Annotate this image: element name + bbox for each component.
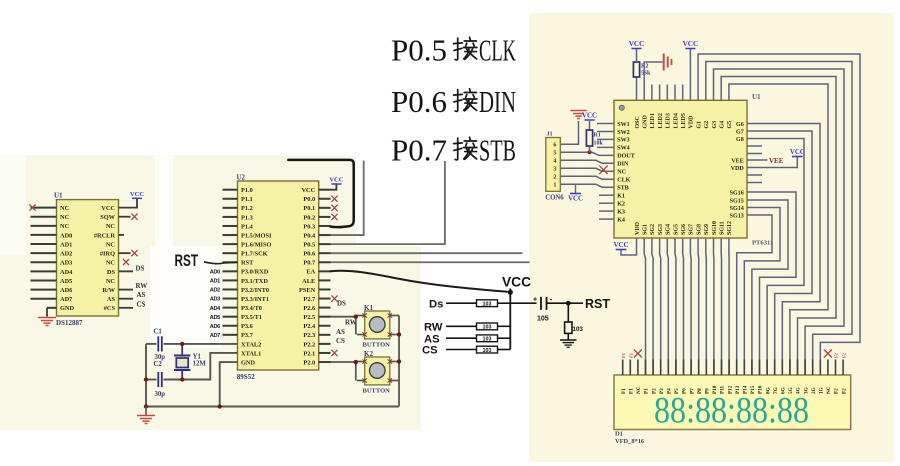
U1 GND symbol [46,308,48,317]
svg-text:P1.0: P1.0 [241,187,253,194]
VFD pin stub P9 [705,360,707,376]
svg-text:C2: C2 [154,361,163,368]
U2 left stub P1.4 [223,225,238,227]
svg-text:SG4: SG4 [666,224,672,235]
U1 left pin wire AD3 [31,261,57,263]
svg-text:2: 2 [553,174,556,181]
svg-text:AD1: AD1 [210,279,220,285]
GND symbol above J1 [570,110,586,112]
U1 #IRQ stub [119,252,131,254]
wire resistor RW to rail [498,325,511,327]
svg-text:F1: F1 [629,352,634,358]
svg-text:P3.3/INT1: P3.3/INT1 [241,296,269,303]
U2 right stub P2.3 [319,334,331,336]
U2 left stub P3.7 [223,334,238,336]
svg-text:GND: GND [643,115,649,129]
buttons right rail to ground [398,316,400,407]
svg-text:NC: NC [636,386,642,394]
svg-text:P0.5: P0.5 [303,242,315,249]
VFD pin stub F2 [835,360,837,376]
svg-text:VCC: VCC [614,242,629,249]
svg-text:NC: NC [826,386,832,394]
wire Ds to resistor [446,302,477,304]
svg-text:56k: 56k [641,71,651,77]
VFD pin stub P2 [652,360,654,376]
no-connect X on P0.0 [331,196,337,202]
PT6311 bottom VDD wire to VCC [621,238,637,255]
wire rail to capacitor [510,302,536,304]
VFD pin stub 2G [812,360,814,376]
no-connect X on SQW [131,214,137,220]
svg-text:RST: RST [175,251,199,270]
rotated red ground symbol [663,54,665,71]
VFD pin stub 5G [789,360,791,376]
svg-text:P0.0: P0.0 [303,196,315,203]
svg-text:103: 103 [483,302,492,308]
svg-text:Ds: Ds [429,298,443,310]
svg-text:J1: J1 [547,132,553,138]
svg-text:30p: 30p [155,391,166,398]
svg-text:P1.1: P1.1 [241,196,253,203]
svg-text:SG1: SG1 [643,224,649,235]
wire U2 GND down [220,362,238,406]
svg-text:NC: NC [106,260,116,267]
wire resistor Ds to rail [498,302,511,304]
U2 right stub P0.1 [319,207,331,209]
svg-text:GND: GND [60,305,75,312]
U1 SQW stub [119,216,131,218]
svg-text:SW3: SW3 [617,138,630,144]
U1 left pin wire AD4 [31,270,57,272]
svg-text:G8: G8 [736,137,744,143]
svg-text:F2: F2 [841,388,847,394]
svg-text:G4: G4 [720,121,726,129]
svg-text:Y1: Y1 [193,354,202,361]
VFD pin stub P1 [645,360,647,376]
ground rail [146,406,399,408]
U1 left pin wire AD2 [31,252,57,254]
svg-text:VEE: VEE [731,158,744,164]
U2 left stub P1.0 [223,189,238,191]
svg-text:103: 103 [483,348,492,354]
hand ground symbol [560,339,577,341]
svg-text:AD0: AD0 [210,270,220,276]
svg-text:P0.2: P0.2 [303,214,315,221]
svg-text:U2: U2 [237,174,246,182]
svg-text:P3.0/RXD: P3.0/RXD [241,269,269,276]
svg-text:6: 6 [553,142,556,149]
svg-text:K2: K2 [364,350,373,358]
no-connect X on P2.7 [331,295,337,301]
wire AS to resistor [446,337,477,339]
svg-text:SG6: SG6 [681,224,687,235]
wire capacitor to RST [547,302,584,304]
U1 #RCLR short stub [119,234,125,236]
VCC junction dot [508,290,513,295]
wire SG13 to VFD P13 [737,215,772,375]
svg-text:P2.0: P2.0 [303,359,315,366]
left screenshot cream background [0,155,421,430]
wire SG14 to VFD P14 [744,208,780,376]
svg-text:K1: K1 [364,304,373,312]
junction rail left end [144,404,148,408]
svg-text:P1: P1 [644,388,650,394]
svg-text:AD7: AD7 [210,333,220,339]
right screenshot cream background [529,13,894,462]
svg-text:P1.7/SCK: P1.7/SCK [241,251,268,258]
U2 left stub P3.1/TXD [223,279,238,281]
U2 right stub P0.6 [319,252,331,254]
svg-text:VCC: VCC [301,187,315,194]
svg-text:PT6311: PT6311 [752,240,773,247]
pulldown resistor 103 [567,303,569,322]
svg-text:DS: DS [107,269,116,276]
junction R1 bottom [588,150,592,154]
svg-text:-: - [550,295,553,304]
PT6311 K2 stub [599,202,614,204]
no-connect X on VFD NC right [824,350,832,358]
svg-text:AD3: AD3 [210,297,220,303]
LED1-LED5 stubs [651,85,653,101]
hand-drawn wire EA to VCC node [331,271,508,292]
svg-text:XTAL1: XTAL1 [241,350,261,357]
U2 right stub P0.2 [319,216,331,218]
U1 left pin wire AD1 [31,243,57,245]
svg-text:103: 103 [573,326,584,333]
U1 left pin wire AD6 [31,289,57,291]
svg-text:P3.7: P3.7 [241,332,254,339]
svg-text:F2: F2 [834,352,839,358]
PT6311 K1 stub [599,194,614,196]
PT6311 pin1 mark [619,105,624,110]
junction pulldown [566,301,571,306]
svg-text:VCC: VCC [101,205,115,212]
PT6311 K4 stub [599,218,614,220]
svg-text:K2: K2 [617,202,625,208]
wire P0.7 [331,261,530,263]
VCC power symbol at U2 [331,183,341,185]
svg-text:CON6: CON6 [545,195,564,202]
svg-text:P3.5/T1: P3.5/T1 [241,314,262,321]
svg-text:P1.3: P1.3 [241,214,253,221]
resistor Ds 103 box [477,300,498,307]
svg-text:#RCLR: #RCLR [94,232,116,239]
svg-text:5: 5 [553,150,556,157]
svg-text:RST: RST [241,260,254,267]
svg-text:VCC: VCC [329,177,344,184]
U2 left stub P1.5/MOSI [223,234,238,236]
U2 left stub P3.3/INT1 [223,298,238,300]
ground-side rail of C1/C2 [145,344,147,407]
svg-text:R/W: R/W [102,287,115,294]
wire G1 over the top to VFD 1G [698,54,860,375]
svg-text:SG2: SG2 [650,224,656,235]
wire P2.5 to K1 [331,316,356,318]
svg-text:RST: RST [585,297,610,311]
svg-text:LED3: LED3 [666,113,672,128]
svg-text:VCC: VCC [582,112,597,120]
U2 right stub P0.7 [319,261,331,263]
U1 left pin wire AD5 [31,279,57,281]
svg-text:P2.2: P2.2 [303,341,315,348]
PT6311 SW2 stub [597,131,614,133]
svg-text:P0.7: P0.7 [303,260,316,267]
display D1 VFD body [614,375,851,430]
K2 cap circle [369,363,385,379]
U2 right stub PSEN [319,288,331,290]
svg-text:P2.5: P2.5 [303,314,315,321]
U2 right stub VCC [319,189,331,191]
VFD pin stub NC [637,360,639,376]
svg-text:LED5: LED5 [681,113,687,128]
U2 right stub ALE [319,279,331,281]
svg-text:AD0: AD0 [60,232,72,239]
VFD pin stub 3G [804,360,806,376]
wire SG16 to VFD P16 [747,192,796,375]
svg-text:AD3: AD3 [60,260,72,267]
U2 left stub P1.1 [223,198,238,200]
white halo patch near AD labels [150,246,222,348]
svg-text:CLK: CLK [617,178,630,184]
OSC wire with resistor R2 [636,77,638,100]
GND pin wire rotated ground [644,62,662,100]
svg-text:XTAL2: XTAL2 [241,341,261,348]
svg-text:88:88:88:88: 88:88:88:88 [654,390,809,431]
VFD pin stub P8 [698,360,700,376]
svg-text:P2.4: P2.4 [303,323,316,330]
capacitor 105 plates [540,297,542,310]
svg-text:F1: F1 [621,388,627,394]
J1 pin3 wire to NC [560,168,614,171]
wire G8 to VFD 8G [747,139,804,376]
svg-text:10k: 10k [594,141,604,147]
svg-text:DS: DS [136,264,145,272]
svg-text:BUTTON: BUTTON [363,342,391,349]
VFD pin stub 4G [797,360,799,376]
svg-text:GND: GND [241,359,256,366]
U2 right stub P2.5 [319,316,331,318]
wire resistor AS to rail [498,337,511,339]
svg-text:VDD: VDD [731,166,745,172]
svg-text:SG14: SG14 [730,206,744,212]
no-connect X on P0.1 [331,205,337,211]
svg-text:SQW: SQW [100,214,115,221]
svg-text:AD2: AD2 [60,251,72,258]
svg-text:F2: F2 [834,388,840,394]
PT6311 SW1 stub [597,123,614,125]
svg-text:VCC: VCC [629,40,645,48]
svg-text:NC: NC [106,241,116,248]
PT6311 SW4 stub [597,146,614,148]
no-connect X on VFD NC left [634,350,642,358]
U2 right stub EA [319,270,331,272]
VFD pin stub F1 [622,360,624,376]
svg-text:DOUT: DOUT [617,154,635,160]
svg-text:VCC: VCC [502,275,531,290]
svg-text:G5: G5 [727,121,733,129]
svg-text:P0.3: P0.3 [303,223,315,230]
svg-text:AD6: AD6 [210,324,220,330]
svg-text:SW2: SW2 [617,130,630,136]
svg-text:U1: U1 [752,93,761,101]
resistor R1 body [589,121,591,130]
VEE stub [747,159,767,161]
svg-text:NC: NC [617,170,626,176]
svg-text:STB: STB [479,133,516,168]
no-connect X on U1 pin 1 [29,205,35,211]
VFD pin stub P14 [743,360,745,376]
svg-text:RW: RW [136,282,148,290]
wire P0.5 [331,161,445,244]
wire SG15 to VFD P15 [747,200,788,375]
svg-text:DIN: DIN [617,162,629,168]
svg-text:VFD_8*16: VFD_8*16 [615,438,645,445]
svg-text:1: 1 [553,182,556,189]
wire G3 over the top to VFD 3G [714,69,845,375]
IC U2 89S52 body [238,181,319,370]
K2 left pin stubs [357,361,365,363]
pull-up rail [509,292,511,349]
K1 left pin stubs [357,315,365,317]
svg-text:VDD: VDD [689,115,695,129]
switch K1 body [365,311,390,339]
svg-text:P2.7: P2.7 [303,296,316,303]
svg-text:P0.7: P0.7 [391,133,447,168]
wire G7 to VFD 7G [747,131,812,375]
svg-text:NC: NC [60,205,70,212]
junction rail bottom wire [144,377,148,381]
VFD pin stub P16 [759,360,761,376]
svg-text:2G: 2G [811,387,817,394]
svg-text:SG13: SG13 [730,213,744,219]
U1 AS pin stub [119,298,134,300]
VFD pin stub 7G [774,360,776,376]
VFD pin stub 6G [781,360,783,376]
wire G6 to VFD 6G [747,124,820,376]
svg-text:VCC: VCC [568,196,583,203]
VFD pin stub 1G [819,360,821,376]
J1 pin4 wire to DIN [560,160,614,163]
ground symbol at rail [145,407,147,416]
resistor R2 body [633,62,639,77]
no-connect X on P0.2 [331,214,337,220]
VFD pin stub P3 [660,360,662,376]
svg-text:P1.4: P1.4 [241,223,254,230]
VFD pin stub P10 [713,360,715,376]
U2 left stub P3.5/T1 [223,316,238,318]
IC U1 PT6311 body [614,100,747,238]
U2 left stub P1.3 [223,216,238,218]
VCC node lead [509,289,511,293]
U1 VCC pin wire [119,198,138,207]
no-connect X on P2.1 [331,350,337,356]
svg-text:G7: G7 [736,129,744,135]
U1 left pin wire AD0 [31,234,57,236]
svg-text:D1: D1 [615,431,623,438]
VCC symbol above R1 [585,119,595,121]
U2 left stub P3.4/T0 [223,307,238,309]
VDD top wire to VCC [689,49,691,101]
svg-text:RW: RW [424,322,443,334]
U2 VCC wire [331,184,337,190]
hand wire RST to U2 [204,262,238,264]
svg-text:VCC: VCC [130,191,145,198]
svg-text:103: 103 [483,337,492,343]
svg-text:VEE: VEE [769,157,784,165]
no-connect X on #IRQ [131,250,137,256]
U2 left stub RST [223,261,238,263]
svg-text:K1: K1 [617,194,625,200]
svg-text:LED1: LED1 [650,113,656,128]
svg-text:PSEN: PSEN [299,287,316,294]
PT6311 bottom SG1-SG12 wires to VFD P1-P12 [644,238,645,375]
U1 DS pin stub [119,270,134,272]
svg-text:SG11: SG11 [720,221,726,235]
wire CS to resistor [446,349,477,351]
U2 left stub P3.2/INT0 [223,288,238,290]
junction crystal bottom [180,377,184,381]
U1 R/W pin stub [119,289,134,291]
svg-text:R1: R1 [594,133,601,139]
svg-text:P3.1/TXD: P3.1/TXD [241,278,268,285]
U2 right stub P2.0 [319,361,331,363]
svg-text:1G: 1G [819,387,825,394]
svg-text:SG16: SG16 [730,190,744,196]
svg-text:AS: AS [336,328,345,336]
wire P2.0 to K2 [331,361,356,363]
svg-text:SG8: SG8 [696,224,702,235]
svg-text:P3.6: P3.6 [241,323,253,330]
svg-text:P0.6: P0.6 [391,84,447,119]
capacitor C2 plates [157,372,159,387]
VFD pin stub NC [827,360,829,376]
U2 left stub P1.6/MISO [223,243,238,245]
no-connect X on PT6311 NC [599,166,607,174]
svg-text:K4: K4 [617,217,625,223]
wire XTAL2 to C1 [164,343,238,345]
resistor CS 103 box [477,346,498,353]
svg-text:EA: EA [306,269,315,276]
U1 left pin wire NC [31,216,57,218]
J1 pin6 wire to GND [560,121,578,144]
svg-text:LED2: LED2 [658,113,664,128]
K2 right pin stubs [390,361,399,363]
VFD pin stub F2 [842,360,844,376]
svg-text:AD5: AD5 [210,315,220,321]
svg-text:P0.5: P0.5 [391,33,447,68]
svg-text:NC: NC [106,278,116,285]
U2 left stub P1.7/SCK [223,252,238,254]
VFD pin stub P5 [675,360,677,376]
resistor AS 103 box [477,335,498,342]
J1 pin1 wire to STB [560,184,614,187]
svg-text:AD6: AD6 [60,287,72,294]
svg-text:AS: AS [107,296,116,303]
svg-text:P1.6/MISO: P1.6/MISO [241,242,272,249]
svg-text:#IRQ: #IRQ [100,251,115,258]
svg-text:#CS: #CS [104,305,116,312]
wire P0.6 [331,252,523,254]
U1 left pin wire NC [31,207,57,209]
svg-text:SG5: SG5 [673,224,679,235]
svg-text:K3: K3 [617,209,625,215]
svg-text:F1: F1 [621,352,626,358]
connector J1 CON6 body [546,138,561,192]
svg-text:4: 4 [553,158,556,165]
wire P0.4 [331,161,364,236]
svg-text:VCC: VCC [790,149,805,156]
IC U1 DS12887 body [57,200,119,316]
